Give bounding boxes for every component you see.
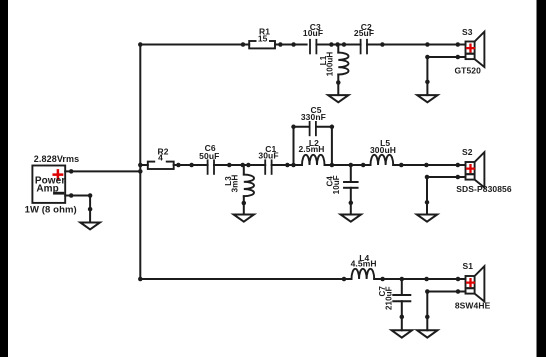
svg-text:15: 15 xyxy=(258,33,268,43)
svg-text:1W (8 ohm): 1W (8 ohm) xyxy=(25,204,77,215)
svg-text:S2: S2 xyxy=(462,147,473,157)
svg-text:2.5mH: 2.5mH xyxy=(298,144,324,154)
svg-text:100uH: 100uH xyxy=(326,52,335,77)
svg-text:3mH: 3mH xyxy=(231,175,240,193)
svg-text:330nF: 330nF xyxy=(301,112,326,122)
svg-text:Amp: Amp xyxy=(36,184,59,195)
svg-text:S3: S3 xyxy=(462,27,473,37)
svg-text:SDS-P830856: SDS-P830856 xyxy=(456,184,512,194)
svg-text:50uF: 50uF xyxy=(199,151,219,161)
svg-text:4.5mH: 4.5mH xyxy=(351,259,377,269)
svg-text:10uF: 10uF xyxy=(332,175,341,194)
svg-text:210uF: 210uF xyxy=(385,286,394,310)
svg-text:300uH: 300uH xyxy=(370,145,396,155)
svg-text:2.828Vrms: 2.828Vrms xyxy=(34,154,79,164)
svg-text:25uF: 25uF xyxy=(354,28,374,38)
svg-text:8SW4HE: 8SW4HE xyxy=(455,300,491,310)
svg-text:GT520: GT520 xyxy=(454,65,481,75)
svg-text:4: 4 xyxy=(158,152,163,162)
svg-text:10uF: 10uF xyxy=(303,28,323,38)
svg-text:S1: S1 xyxy=(462,261,473,271)
svg-text:30uF: 30uF xyxy=(258,151,278,161)
